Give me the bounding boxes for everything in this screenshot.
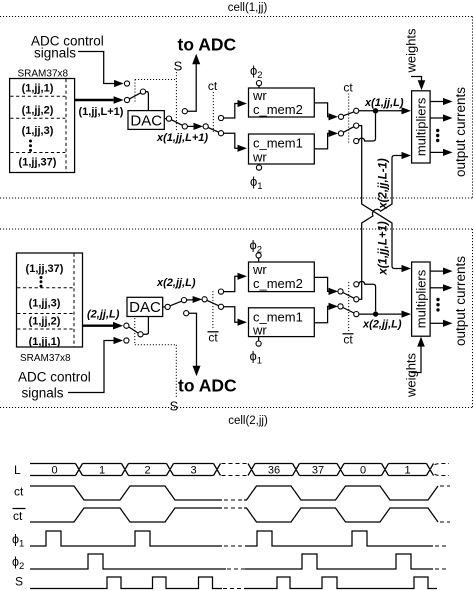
dotted control line ct SW4 (cell 1) (348, 94, 350, 145)
svg-text:multipliers: multipliers (413, 97, 428, 156)
wire ADC control signals to switch (cell 2) (68, 337, 123, 393)
wire S waveform (30, 577, 437, 589)
svg-text:ϕ2: ϕ2 (12, 555, 24, 572)
dotted control line S (cell 1) (175, 72, 177, 132)
switch SW4 read select (cell 1) (338, 108, 358, 143)
dotted control line ct SW3 (cell 1) (212, 92, 214, 132)
multipliers U10 (cell 2) (412, 262, 431, 336)
SRAM ellipsis dots (cell 2) (40, 276, 43, 288)
wire SW3 to c_mem2 input (224, 100, 247, 118)
dotted control line SW5 (cell 2) (135, 318, 177, 345)
SRAM cell word (1,jj,2) (22, 105, 54, 117)
svg-text:3: 3 (190, 465, 196, 477)
svg-text:c_mem2: c_mem2 (253, 102, 303, 117)
svg-text:(1,jj,L+1): (1,jj,L+1) (79, 106, 124, 118)
label L value 3 (190, 465, 196, 477)
SRAM cell word (1,jj,2) cell 2 (29, 316, 61, 328)
cell(1,jj) dotted border top (0, 16, 473, 18)
svg-text:c_mem1: c_mem1 (253, 136, 303, 151)
node ct timing label (14, 485, 24, 499)
svg-text:S: S (170, 399, 179, 414)
wire phi2 waveform (30, 554, 449, 569)
svg-text:ϕ1: ϕ1 (250, 174, 263, 192)
SRAM37x8 label (cell 2) (20, 353, 71, 364)
svg-text:(1,jj,1): (1,jj,1) (22, 83, 54, 95)
SRAM ellipsis dots (cell 1) (29, 140, 32, 152)
cell(1,jj) dotted border right (472, 17, 474, 199)
svg-text:cell(2,jj): cell(2,jj) (228, 415, 268, 427)
cell(2,jj) dotted border bottom (0, 407, 473, 409)
svg-text:multipliers: multipliers (413, 269, 428, 328)
DAC U2 (cell 1) (128, 111, 164, 130)
label L value 1 (99, 465, 105, 477)
SRAM cell word (1,jj,37) cell 2 (26, 263, 64, 275)
svg-text:cell(1,jj): cell(1,jj) (228, 2, 268, 14)
svg-text:x(1,jj,L+1): x(1,jj,L+1) (156, 132, 208, 144)
weights label (cell 2) (404, 352, 419, 398)
dotted control line ct-bar SW7 (cell 2) (212, 291, 214, 330)
wire arrow DAC output to switch SW3 pole (187, 123, 203, 130)
switch SW8 read select (cell 2) (338, 282, 359, 317)
dotted control line S (cell 2) (175, 345, 177, 397)
svg-text:(1,jj,2): (1,jj,2) (29, 316, 61, 328)
cell(1,jj) dotted border bottom (0, 197, 473, 199)
label to ADC (cell 2) (178, 376, 237, 396)
phi1 terminal (cell 2) (250, 337, 263, 367)
phi2 terminal (cell 1) (250, 63, 263, 88)
svg-text:(1,jj,3): (1,jj,3) (22, 125, 54, 137)
switch SW6 S-branch contact (cell 2) (184, 311, 189, 316)
wire L bus bottom line (30, 475, 427, 477)
wire ct-bar waveform (30, 508, 450, 522)
svg-text:ct: ct (208, 79, 218, 93)
node S label (cell 1) (174, 59, 183, 74)
wire ADC control signals to switch (cell 1) (78, 52, 124, 88)
output current arrow 3 (cell 2) (430, 320, 452, 327)
cell(2,jj) dotted border right (472, 229, 474, 408)
svg-text:weights: weights (404, 28, 419, 74)
svg-text:ϕ2: ϕ2 (250, 63, 263, 81)
phi2 terminal (cell 2) (250, 238, 263, 263)
bus (2,jj,L) from SRAM to DAC switch (83, 322, 124, 330)
label x(2,jj,L) after DAC (156, 277, 196, 289)
svg-text:37: 37 (312, 465, 324, 477)
switch SW3 write select (cell 1) (203, 115, 224, 135)
wire x(1,jj,L) to multipliers (cell 1) (359, 107, 411, 114)
wire SW3 to c_mem1 input (224, 133, 247, 152)
label L value 2 (144, 465, 150, 477)
svg-text:output currents: output currents (453, 256, 468, 346)
svg-text:signals: signals (22, 386, 64, 401)
bus (1,jj,L+1) from SRAM to DAC switch (75, 96, 124, 104)
wire ct waveform (30, 486, 450, 500)
wire x(1,jj,L+1) cell 1 to cell 2 with hop at crossing (359, 126, 411, 273)
label x(1,jj,L+1) rotated (into cell 2) (377, 221, 389, 276)
svg-text:DAC: DAC (129, 299, 161, 316)
output current arrow 3 (cell 1) (430, 149, 452, 156)
label (2,jj,L) (87, 309, 120, 321)
c_mem1 U9 (cell 2) (249, 308, 315, 338)
svg-text:S: S (174, 59, 183, 74)
wire L bus top line (30, 463, 427, 465)
ADC control signals label (cell 1) (31, 34, 104, 61)
output ellipsis dots (cell 2) (436, 298, 439, 312)
label x(1,jj,L) (364, 97, 404, 109)
output currents label (cell 2) (453, 256, 468, 346)
wire L bus crossovers (76, 464, 434, 476)
weights label (cell 1) (404, 28, 419, 74)
svg-text:DAC: DAC (130, 112, 162, 129)
wire c_mem2 output to switch SW8 (cell 2) (314, 277, 338, 295)
wire c_mem1 output to switch SW4 (cell 1) (314, 130, 338, 149)
wire SW7 to c_mem2 input (cell 2) (224, 273, 247, 292)
svg-text:ct: ct (343, 81, 353, 95)
svg-text:(1,jj,1): (1,jj,1) (29, 336, 61, 348)
node cell(2,jj) title (228, 415, 268, 427)
svg-text:wr: wr (252, 262, 267, 277)
svg-text:1: 1 (99, 465, 105, 477)
SRAM cell word (1,jj,1) (22, 83, 54, 95)
svg-text:c_mem2: c_mem2 (253, 276, 303, 291)
SRAM cell word (1,jj,1) cell 2 (29, 336, 61, 348)
svg-text:wr: wr (252, 150, 267, 165)
label L value 1 (second) (404, 465, 410, 477)
phi1 terminal (cell 1) (250, 164, 263, 192)
switch SW5 DAC input (cell 2) (124, 323, 143, 343)
svg-text:S: S (15, 575, 23, 589)
svg-text:(1,jj,37): (1,jj,37) (26, 263, 64, 275)
label L value 0 (51, 465, 57, 477)
wire x(2,jj,L) to multipliers (cell 2) (359, 311, 411, 318)
svg-text:ct: ct (13, 509, 23, 523)
wire node to throw contact with hop (cell 1) (359, 114, 376, 141)
svg-text:(1,jj,3): (1,jj,3) (29, 298, 61, 310)
SRAM37x8 label (cell 1) (18, 69, 69, 80)
svg-text:(1,jj,2): (1,jj,2) (22, 105, 54, 117)
ct-bar label near SW8 (cell 2) (343, 333, 354, 347)
cell(2,jj) dotted border top (0, 228, 473, 230)
svg-text:0: 0 (360, 465, 366, 477)
node cell(1,jj) title (228, 2, 268, 14)
wire SW7 to c_mem1 input (cell 2) (224, 307, 247, 326)
svg-text:ADC control: ADC control (18, 370, 91, 385)
label (1,jj,L+1) (79, 106, 124, 118)
c_mem2 U3 (cell 1) (249, 88, 315, 117)
label to ADC (cell 1) (178, 35, 237, 55)
node phi1 timing label (12, 533, 24, 550)
svg-text:to ADC: to ADC (178, 35, 237, 55)
dotted control line SW1 (135, 80, 176, 104)
SRAM U1 box (cell 1) (10, 79, 75, 173)
wire c_mem2 output to switch SW4 (cell 1) (314, 103, 338, 121)
output ellipsis dots (cell 1) (436, 129, 439, 142)
svg-text:output currents: output currents (453, 87, 468, 177)
svg-text:(2,jj,L): (2,jj,L) (87, 309, 120, 321)
svg-text:36: 36 (268, 465, 280, 477)
c_mem2 U8 (cell 2) (249, 262, 315, 292)
label L value 0 (second) (360, 465, 366, 477)
label x(2,jj,L-1) rotated (into cell 1) (377, 158, 389, 210)
output current arrow 2 (cell 1) (430, 114, 452, 121)
switch SW6 throw (cell 2) (170, 298, 187, 306)
ct label near SW3 (cell 1) (208, 79, 218, 93)
svg-text:ct: ct (14, 485, 24, 499)
node S timing label (15, 575, 23, 589)
output current arrow 2 (cell 2) (430, 284, 452, 291)
label L value 36 (268, 465, 280, 477)
node S label (cell 2) (170, 399, 179, 414)
node x(1,jj,L) junction (373, 108, 378, 113)
svg-text:wr: wr (252, 88, 267, 103)
output current arrow 1 (cell 1) (430, 98, 452, 105)
svg-text:L: L (14, 463, 21, 477)
wire weights into multipliers (cell 2) (411, 337, 425, 373)
svg-text:x(2,jj,L): x(2,jj,L) (362, 319, 402, 331)
label L value 37 (312, 465, 324, 477)
svg-text:x(2,jj,L): x(2,jj,L) (156, 277, 196, 289)
DAC output terminal (cell 1) (164, 116, 171, 121)
ct label near SW4 (cell 1) (343, 81, 353, 95)
label x(1,jj,L+1) (156, 132, 208, 144)
output currents label (cell 1) (453, 87, 468, 177)
SRAM cell word (1,jj,37) (19, 157, 57, 169)
svg-text:weights: weights (404, 352, 419, 398)
node phi2 timing label (12, 555, 24, 572)
svg-text:to ADC: to ADC (178, 376, 237, 396)
svg-text:(1,jj,37): (1,jj,37) (19, 157, 57, 169)
svg-text:ct: ct (208, 331, 218, 345)
label x(2,jj,L) at node (362, 319, 402, 331)
node ct-bar timing label (13, 509, 26, 524)
svg-text:SRAM37x8: SRAM37x8 (20, 353, 71, 364)
svg-text:ϕ1: ϕ1 (250, 349, 263, 367)
output current arrow 1 (cell 2) (430, 268, 452, 275)
wire phi1 waveform (30, 531, 449, 546)
wire node to throw contact with hop (cell 2) (359, 281, 376, 311)
wire L bus dashed break (222, 464, 248, 476)
wire to ADC (cell 2) (189, 313, 201, 376)
wire arrow DAC output to switch SW7 pole (cell 2) (187, 296, 203, 303)
svg-text:wr: wr (252, 323, 267, 338)
SRAM cell word (1,jj,3) cell 2 (29, 298, 61, 310)
dotted control line ct-bar SW8 (cell 2) (348, 282, 350, 331)
wire x(2,jj,L-1) cell 2 to cell 1 multipliers (359, 152, 411, 299)
svg-text:2: 2 (144, 465, 150, 477)
SRAM cell word (1,jj,3) (22, 125, 54, 137)
node L timing label (14, 463, 21, 477)
switch SW7 write select (cell 2) (202, 289, 224, 309)
node x(2,jj,L) junction (373, 311, 378, 316)
svg-text:signals: signals (34, 46, 76, 61)
SRAM U6 box (cell 2) (17, 253, 83, 347)
svg-text:x(2,jj,L-1): x(2,jj,L-1) (377, 158, 389, 210)
multipliers U5 (cell 1) (412, 91, 431, 163)
wire c_mem1 output to switch SW8 (cell 2) (314, 303, 338, 323)
switch SW2 throw (cell 1) (171, 120, 187, 129)
switch SW2 S-branch contact (cell 1) (182, 109, 187, 114)
wire to ADC (cell 1) (187, 54, 200, 111)
wire weights into multipliers (cell 1) (411, 77, 425, 91)
switch SW1 DAC input (cell 1) (124, 81, 145, 103)
c_mem1 U4 (cell 1) (249, 134, 315, 165)
wire switch SW1 to DAC input (146, 92, 149, 111)
svg-text:x(1,jj,L): x(1,jj,L) (364, 97, 404, 109)
ct-bar label near SW7 (cell 2) (208, 331, 219, 345)
wire L bus dashed right end (435, 464, 450, 476)
svg-text:ϕ1: ϕ1 (12, 533, 24, 550)
svg-text:ct: ct (343, 333, 353, 347)
wire switch SW5 to DAC input (cell 2) (143, 317, 148, 335)
DAC U7 (cell 2) (127, 297, 163, 316)
svg-text:1: 1 (404, 465, 410, 477)
DAC output terminal (cell 2) (163, 304, 170, 309)
ADC control signals label (cell 2) (18, 370, 91, 401)
svg-text:0: 0 (51, 465, 57, 477)
svg-text:SRAM37x8: SRAM37x8 (18, 69, 69, 80)
